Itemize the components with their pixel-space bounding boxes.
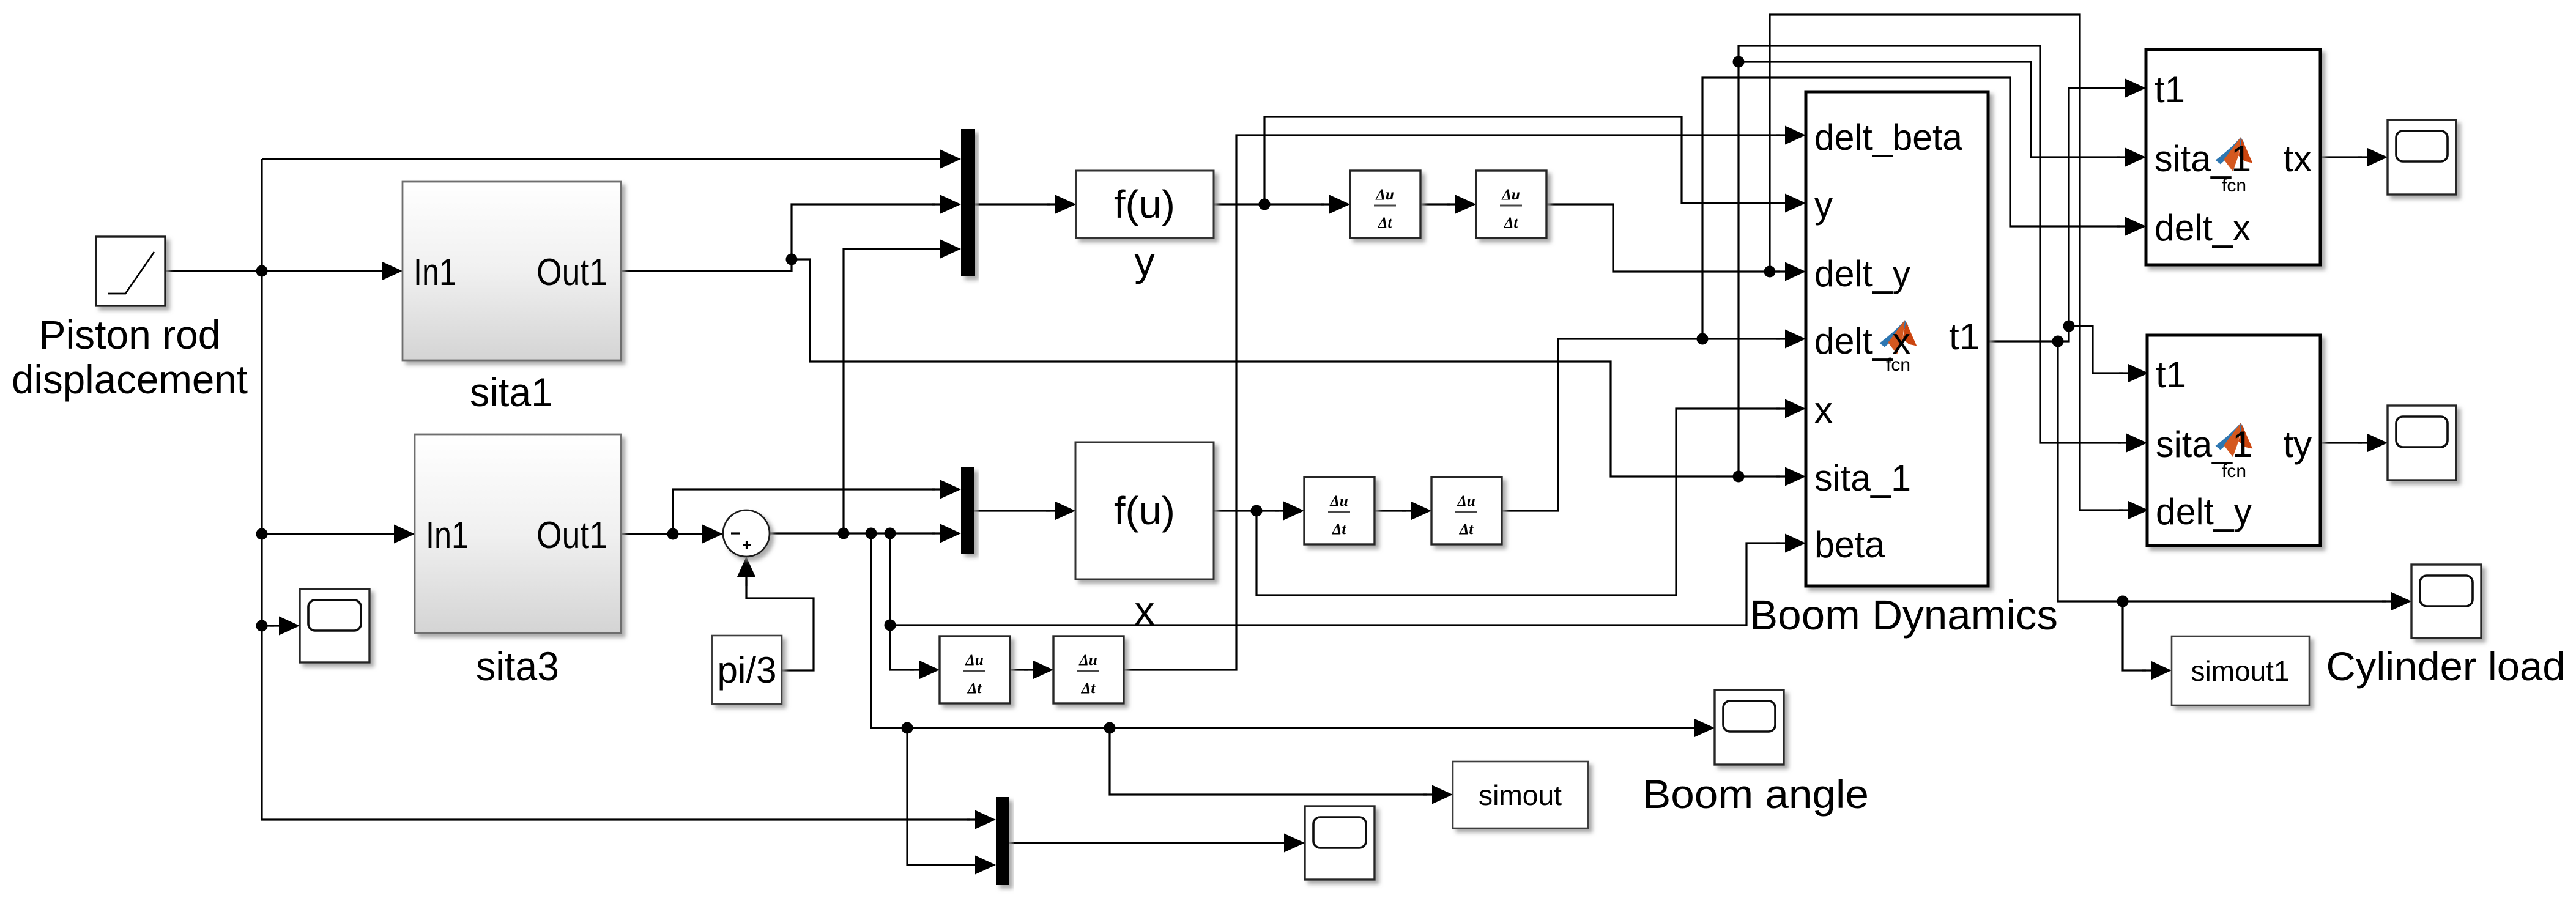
wire boom angle line xyxy=(871,533,1689,728)
arrowhead into mux2 input1 xyxy=(932,480,961,499)
arrowhead into simout1 xyxy=(2142,661,2172,680)
arrowhead into scope4 xyxy=(1275,834,1305,853)
svg-text:beta: beta xyxy=(1814,524,1885,565)
To Workspace block simout xyxy=(1453,762,1588,828)
arrowhead into Boom x xyxy=(1776,399,1806,418)
ty port labels xyxy=(2156,354,2312,532)
arrowhead into tx delt_x xyxy=(2117,217,2146,236)
wire to simout xyxy=(1110,728,1427,795)
arrowhead into sita1 In1 xyxy=(373,262,403,281)
svg-text:sita_1: sita_1 xyxy=(2155,138,2251,179)
label Boom angle xyxy=(1642,771,1869,817)
svg-text:f(u): f(u) xyxy=(1114,182,1175,226)
wire t1 down to cylinder xyxy=(2058,341,2386,601)
arrowhead into deriv b2 xyxy=(1024,661,1053,680)
wire t1 to simout1 xyxy=(2123,601,2146,670)
wire t1 to tx xyxy=(2069,88,2120,326)
scope scope tx xyxy=(2388,120,2456,195)
arrowhead into mux2 input2 xyxy=(932,524,961,543)
arrowhead into deriv y2 xyxy=(1447,195,1476,214)
junction delt_y branch xyxy=(1764,266,1776,278)
svg-text:delt_x: delt_x xyxy=(2155,207,2251,248)
wire ramp out to sita1 In1 xyxy=(165,270,377,272)
arrowhead into Boom delt_x xyxy=(1776,330,1806,349)
arrowhead into deriv b1 xyxy=(910,661,940,680)
wire piston rod rail vertical xyxy=(262,159,970,820)
svg-text:Boom angle: Boom angle xyxy=(1642,771,1869,817)
Fcn block f(u) y xyxy=(1076,171,1214,238)
svg-text:t1: t1 xyxy=(2155,69,2185,110)
label y xyxy=(1135,239,1155,284)
wire rail to sita3 In1 xyxy=(262,533,389,535)
derivative block x1 xyxy=(1304,477,1375,544)
arrowhead into Cylinder scope xyxy=(2382,592,2411,611)
wire mux2 out to fu-x xyxy=(974,510,1050,511)
svg-text:delt_y: delt_y xyxy=(1814,253,1910,294)
arrowhead into tx t1 xyxy=(2117,79,2146,98)
scope scope bottom middle xyxy=(1305,806,1375,880)
To Workspace block simout1 xyxy=(2172,636,2309,705)
label Cylinder load xyxy=(2326,643,2566,689)
wire pi3 to sum plus xyxy=(746,580,814,670)
junction t1 B xyxy=(2063,321,2075,332)
arrowhead into Boom angle scope xyxy=(1685,719,1715,738)
label sita1 xyxy=(470,369,553,415)
junction delt_x branch xyxy=(1697,333,1709,345)
arrowhead into mux3 input2 xyxy=(967,856,996,875)
svg-text:Δu: Δu xyxy=(1457,493,1475,510)
junction piston rail A xyxy=(256,265,268,277)
junction sita1 out junction xyxy=(786,254,798,265)
scope scope ty xyxy=(2388,406,2456,480)
svg-text:Δu: Δu xyxy=(1375,187,1394,203)
arrowhead into scope ty xyxy=(2358,434,2388,453)
wire delt_beta line xyxy=(1123,135,1780,670)
wire delt_y up riser xyxy=(1770,15,2123,510)
mux mux3 xyxy=(996,797,1009,885)
derivative block b1 xyxy=(940,636,1010,703)
junction beta split xyxy=(885,620,896,631)
Boom Dynamics port labels xyxy=(1814,117,1980,565)
MATLAB fcn logo Boom Dynamics fcn xyxy=(1880,320,1917,354)
wire sum out to mux2 in2 xyxy=(770,532,935,534)
svg-text:displacement: displacement xyxy=(12,357,248,402)
subsystem block sita3 xyxy=(415,434,621,633)
wire beta down xyxy=(890,533,914,670)
wire sita3 out up to mux2 in1 xyxy=(673,489,935,534)
wire delt_x up riser xyxy=(1702,78,2120,339)
svg-text:sita3: sita3 xyxy=(476,643,559,689)
label Boom Dynamics xyxy=(1750,591,2058,639)
svg-text:In1: In1 xyxy=(414,251,456,294)
svg-text:delt_y: delt_y xyxy=(2156,491,2252,532)
junction sita3 out branch xyxy=(667,528,679,540)
svg-text:Δu: Δu xyxy=(1329,493,1348,510)
derivative block x2 xyxy=(1431,477,1502,544)
arrowhead into ty sita_1 xyxy=(2118,434,2147,453)
MATLAB fcn logo tx fcn xyxy=(2216,137,2253,171)
wire deriv x1 to x2 xyxy=(1375,510,1406,511)
svg-text:Δt: Δt xyxy=(1504,215,1519,231)
svg-text:y: y xyxy=(1135,239,1155,284)
junction boom angle branch1 xyxy=(902,722,913,734)
svg-text:x: x xyxy=(1135,588,1155,633)
svg-text:y: y xyxy=(1814,185,1833,226)
svg-text:Δu: Δu xyxy=(1078,652,1097,669)
wire sum out up to mux1 in3 xyxy=(844,249,935,533)
arrowhead into fu-y xyxy=(1047,195,1076,214)
svg-text:pi/3: pi/3 xyxy=(718,650,777,691)
wire sita1 out down to sita_1 line xyxy=(792,259,1780,476)
label sita3 xyxy=(476,643,559,689)
wire tx to scope xyxy=(2320,156,2362,158)
wire sita1 Out1 to junction xyxy=(621,204,935,271)
svg-text:sita_1: sita_1 xyxy=(2156,424,2252,465)
wire rail to scope1 xyxy=(262,625,274,626)
wire ty to scope xyxy=(2320,442,2362,443)
MATLAB Function block ty xyxy=(2147,335,2320,546)
wire sita_1 to tx xyxy=(1739,62,2120,157)
svg-text:delt_x: delt_x xyxy=(1814,321,1910,362)
junction t1 A xyxy=(2052,336,2064,347)
junction y out xyxy=(1259,199,1271,210)
svg-text:tx: tx xyxy=(2283,138,2312,179)
arrowhead into ty t1 xyxy=(2119,364,2148,383)
wire y to Boom xyxy=(1264,117,1780,204)
scope scope left xyxy=(300,589,369,662)
svg-text:Out1: Out1 xyxy=(536,514,607,557)
arrowhead into tx sita_1 xyxy=(2117,148,2146,167)
wire delt_y line xyxy=(1546,204,1780,272)
MATLAB Function block Boom Dynamics xyxy=(1806,92,1988,586)
svg-text:Δt: Δt xyxy=(1081,680,1096,697)
wire mux1 out to fu-y xyxy=(975,203,1050,205)
wire fu-y out xyxy=(1214,203,1324,205)
svg-text:simout: simout xyxy=(1479,779,1562,811)
svg-text:sita1: sita1 xyxy=(470,369,553,415)
svg-text:Out1: Out1 xyxy=(536,251,607,294)
junction sum out C xyxy=(885,528,896,539)
svg-text:ty: ty xyxy=(2283,424,2312,465)
arrowhead into deriv y1 xyxy=(1321,195,1350,214)
junction sita_1 split xyxy=(1733,56,1745,68)
svg-text:t1: t1 xyxy=(1949,316,1980,357)
wire mux3 out to scope xyxy=(1009,842,1279,844)
arrowhead into scope1 xyxy=(270,617,300,636)
arrowhead into mux1 input2 xyxy=(932,195,961,214)
arrowhead into simout xyxy=(1423,785,1453,804)
Fcn block f(u) x xyxy=(1075,442,1214,579)
junction sum out B xyxy=(866,528,877,539)
svg-text:sita_1: sita_1 xyxy=(1814,458,1911,499)
derivative block y1 xyxy=(1350,171,1420,238)
svg-text:x: x xyxy=(1814,390,1833,431)
svg-text:Δt: Δt xyxy=(1378,215,1393,231)
svg-text:Δu: Δu xyxy=(965,652,984,669)
junction sita_1 branch xyxy=(1733,471,1745,483)
wire t1 out xyxy=(1988,326,2069,341)
arrowhead into fu-x xyxy=(1046,502,1075,521)
mux mux2 xyxy=(961,467,974,554)
svg-text:Δu: Δu xyxy=(1501,187,1520,203)
svg-text:delt_beta: delt_beta xyxy=(1814,117,1963,158)
wire fu-x out xyxy=(1214,510,1279,511)
MATLAB Function block tx xyxy=(2146,50,2320,265)
sum block xyxy=(723,510,770,557)
svg-text:Δt: Δt xyxy=(967,680,982,697)
svg-text:f(u): f(u) xyxy=(1114,489,1175,533)
arrowhead into deriv x1 xyxy=(1275,502,1304,521)
arrowhead into Boom y xyxy=(1776,194,1806,213)
label x xyxy=(1135,588,1155,633)
junction piston rail C xyxy=(256,620,268,632)
arrowhead into Boom delt_beta xyxy=(1776,126,1806,145)
junction boom angle branch2 xyxy=(1104,722,1116,734)
arrowhead into mux1 input1 xyxy=(932,150,961,169)
wire sita3 Out1 to sum xyxy=(621,533,697,535)
derivative block y2 xyxy=(1476,171,1546,238)
svg-text:t1: t1 xyxy=(2156,354,2186,395)
wire deriv y1 to y2 xyxy=(1420,203,1450,205)
svg-text:In1: In1 xyxy=(426,514,469,557)
svg-text:Δt: Δt xyxy=(1459,521,1474,538)
arrowhead into deriv x2 xyxy=(1402,502,1431,521)
svg-text:Boom Dynamics: Boom Dynamics xyxy=(1750,591,2058,639)
derivative block b2 xyxy=(1053,636,1124,703)
svg-text:Piston rod: Piston rod xyxy=(39,312,221,357)
tx port labels xyxy=(2155,69,2312,248)
ramp source block Piston rod displacement xyxy=(96,237,165,306)
scope scope Boom angle xyxy=(1715,690,1784,765)
svg-text:simout1: simout1 xyxy=(2191,655,2290,687)
svg-text:Cylinder load: Cylinder load xyxy=(2326,643,2566,689)
wire beta long line xyxy=(890,543,1780,625)
wire piston top rail to mux1 in1 xyxy=(262,158,935,160)
constant block pi/3 xyxy=(712,636,782,704)
arrowhead into Boom beta xyxy=(1776,534,1806,553)
wire x to Boom xyxy=(1256,409,1780,595)
junction sum out A xyxy=(838,528,850,539)
arrowhead into ty delt_y xyxy=(2119,501,2148,520)
arrowhead into scope tx xyxy=(2358,148,2388,167)
wire to mux3 in2 xyxy=(907,728,970,865)
scope scope Cylinder load xyxy=(2411,565,2481,638)
junction t1 C xyxy=(2117,596,2129,607)
wire t1 to ty xyxy=(2069,326,2123,373)
junction x out xyxy=(1251,505,1263,517)
arrowhead into Boom delt_y xyxy=(1776,262,1806,281)
mux mux1 xyxy=(961,129,975,276)
arrowhead into sum xyxy=(694,525,723,544)
arrowhead into mux1 input3 xyxy=(932,240,961,259)
label Piston rod displacement xyxy=(12,312,248,402)
junction piston rail B xyxy=(256,528,268,540)
subsystem block sita1 xyxy=(403,182,621,360)
wire delt_x line xyxy=(1502,339,1780,511)
wire sita_1 up riser xyxy=(1739,46,2121,476)
arrowhead into sita3 In1 xyxy=(385,525,415,544)
arrowhead into Boom sita_1 xyxy=(1776,467,1806,486)
arrowhead into sum plus xyxy=(737,557,756,586)
arrowhead into mux3 input1 xyxy=(967,810,996,829)
wire deriv b1 to b2 xyxy=(1009,669,1028,670)
MATLAB fcn logo ty fcn xyxy=(2216,423,2253,457)
svg-text:Δt: Δt xyxy=(1332,521,1347,538)
